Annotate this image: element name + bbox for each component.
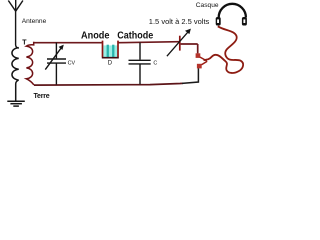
terminal upper bbox=[196, 53, 201, 58]
svg-text:Antenne: Antenne bbox=[22, 18, 47, 25]
svg-text:Casque: Casque bbox=[196, 2, 219, 9]
diode D cup walls bbox=[102, 41, 104, 58]
svg-text:Terre: Terre bbox=[34, 93, 50, 100]
variable arrow head bbox=[185, 29, 191, 34]
svg-text:1.5 volt à 2.5 volts: 1.5 volt à 2.5 volts bbox=[149, 17, 210, 26]
variable element arrow bbox=[167, 32, 188, 56]
capacitor C bbox=[129, 43, 151, 85]
headphone right ear cup bbox=[242, 17, 247, 26]
variable capacitor CV bbox=[45, 43, 66, 85]
terminal lower bbox=[197, 64, 202, 69]
ground bbox=[7, 80, 25, 106]
svg-text:Anode: Anode bbox=[81, 30, 110, 41]
antenna bbox=[8, 0, 23, 48]
svg-text:CV: CV bbox=[68, 61, 76, 67]
transformer T primary coil bbox=[12, 48, 19, 81]
wire top left segment bbox=[33, 42, 102, 44]
variable element vertical bar bbox=[179, 36, 181, 51]
headphone left ear cup bbox=[216, 17, 221, 26]
svg-text:Cathode: Cathode bbox=[117, 30, 153, 41]
wire right vertical (to upper terminal) bbox=[197, 44, 199, 53]
wire top right segment bbox=[181, 43, 198, 45]
diode D cup bottom bbox=[102, 57, 119, 59]
transformer T secondary coil bbox=[26, 42, 34, 85]
terminal lower lead to cord bbox=[202, 61, 208, 65]
svg-text:C: C bbox=[153, 60, 157, 66]
diode D electrodes bbox=[107, 45, 109, 57]
wire top middle segment (diode to variable bar) bbox=[118, 42, 179, 43]
terminal upper lead to cord bbox=[200, 57, 207, 61]
CV arrow head bbox=[59, 45, 64, 50]
wire bottom right black segment bbox=[182, 68, 198, 83]
wire bottom red segment bbox=[34, 83, 183, 85]
headphone headband bbox=[219, 4, 246, 18]
svg-text:D: D bbox=[108, 61, 113, 67]
headphone cord bbox=[204, 26, 244, 73]
diode D cup fill bbox=[103, 45, 117, 57]
